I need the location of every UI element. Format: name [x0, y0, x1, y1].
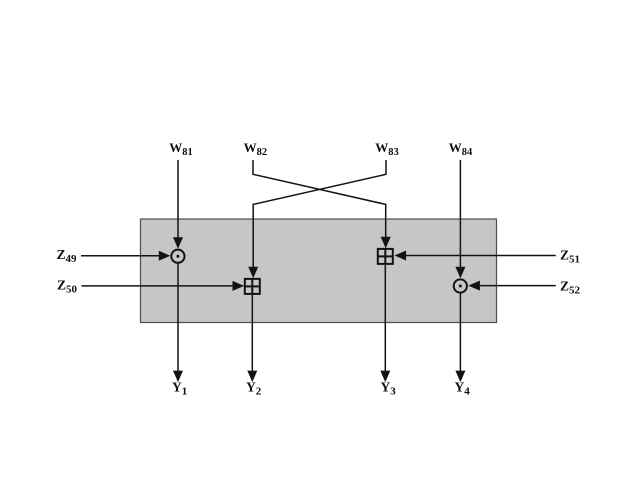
svg-text:Y2: Y2 [246, 380, 262, 398]
svg-text:W83: W83 [375, 140, 399, 158]
svg-text:Y4: Y4 [455, 380, 471, 398]
svg-text:W82: W82 [244, 140, 268, 158]
svg-text:Z51: Z51 [560, 248, 580, 266]
svg-text:Y3: Y3 [381, 380, 397, 398]
svg-text:Z52: Z52 [560, 279, 581, 297]
svg-text:Z49: Z49 [57, 247, 78, 265]
svg-text:W84: W84 [449, 140, 473, 158]
svg-text:Z50: Z50 [57, 277, 78, 295]
svg-text:W81: W81 [169, 140, 193, 158]
svg-text:Y1: Y1 [172, 380, 187, 398]
